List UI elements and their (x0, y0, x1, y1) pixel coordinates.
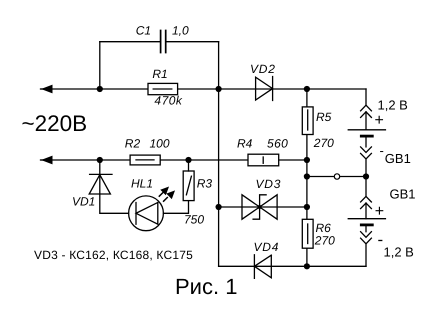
wire R5 column (306, 89, 308, 266)
wire LED to R3 (163, 201, 188, 214)
wire VD1 branch (100, 160, 129, 213)
svg-text:1,2 В: 1,2 В (378, 98, 408, 113)
wire connector link (307, 176, 366, 178)
resistor R3 (183, 171, 194, 201)
diode VD1 (89, 174, 112, 194)
junction VD3 center tip (258, 205, 262, 209)
diode VD2 (256, 77, 273, 101)
battery GB2 short plate (361, 223, 372, 226)
svg-text:VD3: VD3 (256, 177, 282, 191)
diode VD4 (254, 255, 271, 278)
wire VD4 line (219, 265, 366, 267)
svg-text:GB1: GB1 (385, 151, 411, 166)
svg-text:~220В: ~220В (22, 111, 88, 136)
resistor R1 (148, 83, 178, 94)
svg-text:VD3 - КС162, КС168, КС175: VD3 - КС162, КС168, КС175 (34, 248, 193, 262)
wire main top line (41, 88, 367, 90)
zener VD3 (242, 195, 277, 219)
resistor R4 (248, 154, 279, 166)
wire (365, 226, 367, 232)
svg-text:560: 560 (267, 136, 288, 150)
svg-text:VD4: VD4 (254, 240, 280, 254)
svg-text:VD1: VD1 (72, 194, 95, 208)
wire C1 left drop (99, 42, 101, 89)
wire (365, 159, 367, 196)
junction C1/R1 node (97, 86, 103, 92)
junction VD3/R6 (304, 204, 310, 210)
resistor R2 (130, 155, 160, 165)
svg-text:GB1: GB1 (390, 187, 416, 202)
wire center vertical (218, 42, 220, 267)
wire (365, 137, 367, 147)
LED light arrows (159, 193, 167, 202)
mains terminal arrow bottom (41, 156, 53, 165)
svg-text:750: 750 (184, 213, 204, 227)
battery top wire (365, 89, 367, 105)
svg-text:R2: R2 (125, 137, 141, 151)
junction R5 column/link wire (304, 173, 310, 179)
junction R6/VD4 (304, 263, 310, 269)
contact chevrons GB2 bottom (361, 232, 372, 244)
battery GB1 long plate (348, 129, 385, 131)
svg-text:R1: R1 (152, 67, 167, 81)
svg-text:R5: R5 (316, 110, 332, 124)
svg-text:R4: R4 (237, 136, 253, 150)
wire (365, 244, 367, 266)
junction center column/VD3 (216, 204, 222, 210)
svg-text:270: 270 (313, 136, 334, 150)
wire VD3 line (219, 206, 307, 208)
junction R1/VD2/center column (216, 86, 222, 92)
svg-text:R3: R3 (197, 177, 213, 191)
svg-text:100: 100 (150, 137, 170, 151)
junction R2/R3 (185, 157, 191, 163)
mains terminal arrow top (41, 85, 53, 94)
wire R2 R4 line (41, 159, 307, 161)
svg-text:+: + (375, 203, 384, 220)
wire C1 top (100, 41, 219, 43)
contact chevrons GB1 bottom (361, 147, 372, 159)
contact chevrons GB2 top (361, 196, 372, 208)
capacitor C1 (161, 31, 166, 53)
svg-text:-: - (380, 143, 384, 158)
wire R3 top (188, 160, 190, 171)
junction R2/VD1 (97, 157, 103, 163)
LED HL1 (129, 196, 164, 231)
svg-text:+: + (375, 112, 384, 129)
contact chevrons GB1 top (361, 105, 372, 117)
svg-text:470k: 470k (154, 94, 183, 108)
battery GB1 short plate (361, 135, 372, 138)
svg-text:270: 270 (314, 233, 335, 247)
wire (365, 203, 367, 219)
junction VD2/R5/GB1 top (304, 86, 310, 92)
svg-text:C1: C1 (136, 24, 151, 38)
svg-text:-: - (378, 230, 384, 249)
junction R4/R5 (304, 157, 310, 163)
junction battery midpoint (363, 173, 369, 179)
svg-text:Рис. 1: Рис. 1 (175, 274, 237, 299)
resistor R6 (302, 219, 313, 248)
svg-text:1,2 В: 1,2 В (384, 245, 414, 260)
resistor R5 (302, 107, 313, 135)
svg-text:HL1: HL1 (131, 176, 153, 190)
svg-text:1,0: 1,0 (172, 24, 189, 38)
battery GB2 long plate (348, 218, 385, 220)
connector open circle (334, 174, 339, 179)
svg-text:VD2: VD2 (250, 62, 276, 76)
wire (365, 112, 367, 130)
